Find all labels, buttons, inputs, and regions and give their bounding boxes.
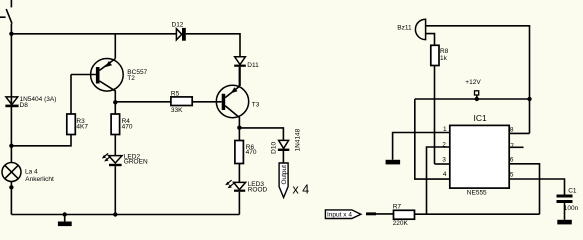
resistor R8 — [431, 45, 449, 65]
pin 7 — [509, 143, 523, 150]
svg-text:4: 4 — [443, 171, 447, 178]
wire buzzer bottom to R8 — [426, 34, 435, 46]
svg-text:8: 8 — [510, 126, 514, 133]
wire buzzer top to +12V column — [426, 26, 530, 134]
ground left — [58, 212, 72, 226]
svg-text:T3: T3 — [252, 102, 260, 109]
pin 8 — [509, 126, 529, 133]
transistor T3 — [216, 67, 259, 128]
svg-text:7: 7 — [510, 143, 514, 150]
wire D11 to T3 emitter — [239, 67, 241, 86]
svg-text:470: 470 — [122, 124, 133, 131]
node Output x 4 pointer — [279, 163, 309, 198]
pin 1 — [393, 126, 450, 160]
svg-text:1: 1 — [443, 126, 447, 133]
pin 3 — [435, 156, 450, 164]
svg-text:La 4: La 4 — [25, 168, 38, 175]
capacitor C1 — [557, 188, 579, 212]
ground pin1 — [386, 160, 401, 165]
LED LED2 — [102, 153, 148, 214]
svg-text:R5: R5 — [171, 90, 180, 97]
LED LED3 — [225, 180, 267, 214]
wire R5 to T3 base — [192, 101, 221, 103]
svg-text:D10: D10 — [270, 142, 277, 154]
svg-text:D12: D12 — [172, 22, 184, 29]
wire +12V to pin4 — [415, 99, 450, 179]
svg-text:ROOD: ROOD — [248, 186, 268, 193]
pin 5 — [509, 171, 564, 194]
svg-text:4K7: 4K7 — [76, 124, 88, 131]
wire R8 to pin3 — [434, 66, 436, 165]
svg-text:Ankerlicht: Ankerlicht — [25, 176, 54, 183]
diode D12 — [172, 22, 186, 41]
diode D8 — [5, 96, 56, 109]
svg-text:D11: D11 — [247, 62, 259, 69]
lamp La4 — [2, 163, 54, 184]
pin 6 — [509, 157, 539, 215]
pin 2 — [427, 141, 450, 214]
svg-text:1N4148: 1N4148 — [294, 128, 301, 151]
svg-text:2: 2 — [442, 141, 446, 148]
svg-text:100n: 100n — [564, 205, 579, 212]
wire rail to corner — [186, 34, 240, 57]
svg-text:GROEN: GROEN — [124, 159, 148, 166]
buzzer Bz11 — [397, 19, 425, 39]
svg-text:Bz11: Bz11 — [397, 25, 412, 32]
svg-text:1k: 1k — [440, 55, 448, 62]
svg-text:Output: Output — [281, 165, 288, 185]
diode D11 — [234, 57, 259, 69]
wire collector to R5 — [115, 101, 171, 103]
resistor R5 — [171, 90, 192, 114]
resistor R6 — [235, 128, 257, 183]
node Input x 4 pointer — [325, 210, 361, 219]
wire lamp to bottom rail — [10, 182, 12, 215]
svg-text:x 4: x 4 — [293, 183, 310, 197]
transistor T2 (BC557) — [71, 34, 148, 103]
wire bottom rail — [11, 214, 239, 216]
ground C1 — [557, 203, 572, 224]
svg-text:+12V: +12V — [465, 79, 481, 86]
wire +12V rail — [415, 98, 530, 100]
power +12V — [465, 79, 481, 101]
node T2 collector junction — [113, 100, 117, 104]
svg-text:NE555: NE555 — [467, 189, 487, 196]
svg-text:220K: 220K — [393, 220, 409, 227]
resistor R4 — [111, 102, 133, 155]
svg-text:470: 470 — [246, 149, 257, 156]
resistor R7 — [393, 204, 415, 227]
IC IC1 (NE555) — [450, 113, 509, 197]
svg-text:R8: R8 — [440, 48, 449, 55]
switch S1 — [0, 0, 12, 24]
svg-text:D8: D8 — [20, 102, 29, 109]
resistor R3 — [11, 75, 88, 146]
svg-text:C1: C1 — [568, 188, 577, 195]
wire R7 to pin6 — [415, 213, 540, 215]
node lamp bottom — [9, 185, 13, 189]
node R3 lamp junction — [9, 144, 13, 148]
svg-text:Input x 4: Input x 4 — [327, 211, 352, 218]
svg-text:33K: 33K — [171, 107, 183, 114]
svg-text:R7: R7 — [393, 204, 402, 211]
wire input thick stub — [366, 212, 376, 215]
svg-text:T2: T2 — [127, 75, 135, 82]
svg-text:5: 5 — [510, 171, 514, 178]
wire T3 junction to D10 — [239, 128, 283, 140]
node T3 collector junction — [237, 126, 241, 130]
wire left main vertical — [10, 24, 12, 163]
node LED2 bottom rail — [113, 212, 117, 216]
svg-text:6: 6 — [510, 157, 514, 164]
node buzzer/+12V junction — [527, 97, 531, 101]
wire input to R7 — [376, 213, 394, 215]
svg-text:IC1: IC1 — [474, 113, 488, 123]
diode D10 — [270, 128, 301, 154]
wire D10 to output pointer — [282, 151, 284, 163]
node switch junction — [9, 32, 13, 36]
wire top rail — [11, 33, 176, 35]
svg-text:3: 3 — [442, 156, 446, 163]
